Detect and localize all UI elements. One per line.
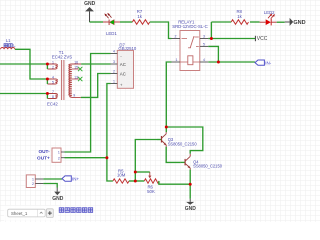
sheet tab bar [4,206,58,221]
LED D1 (LED1) [103,13,120,25]
winding 1-2 [47,64,57,69]
svg-text:3: 3 [203,35,205,39]
resistor R8 [231,9,248,24]
svg-text:LED1: LED1 [106,31,117,36]
transistor Q4 SS8050 [181,154,223,170]
svg-text:AC: AC [120,72,126,77]
node junction pin5/pin4/IN- [217,61,220,64]
bridge pin stubs [111,54,118,84]
wire pin3 to VCC [211,38,255,40]
relay pin numbers [175,35,205,63]
svg-text:LED2: LED2 [264,10,275,15]
svg-text:4: 4 [52,75,54,79]
wire Q3 base from junction column [135,140,157,173]
bridge pin numbers [113,50,115,84]
wire pin3 up to R8 row [210,22,212,39]
svg-text:5: 5 [203,43,205,47]
sheet title CJK text [59,208,92,213]
wire T1 pin16 to bridge pin3 [81,63,110,65]
LED D2 (LED2) [260,14,277,26]
wire IN pin1 to IN+ flag [43,178,62,180]
svg-text:15: 15 [74,66,78,70]
svg-text:1: 1 [113,80,115,84]
transistor Q3 SS8050 [157,132,197,147]
transformer T1 EC42 ZVS [47,50,81,106]
wire junction down to R5/R6 row [134,172,136,181]
svg-text:EC42 ZVS: EC42 ZVS [52,54,72,59]
svg-text:OUT+: OUT+ [37,156,50,161]
winding 7-8 [47,94,57,99]
net flag IN- [255,60,272,65]
wire junction to R6 wiper [135,171,150,173]
svg-text:EC42: EC42 [47,101,58,106]
svg-text:1: 1 [32,178,34,182]
connector OUT (2 pin) [52,148,65,162]
potentiometer R6 50K [144,172,159,194]
wire R8 to LED2 [250,21,260,23]
wire Q3 collector junction down [165,127,167,132]
svg-text:7: 7 [52,90,54,94]
tap stubs 15 and 13 [72,68,79,70]
wire GND1 to LED1 [90,21,104,23]
winding 4-5 [47,79,57,84]
no-connect X pin13 [78,77,82,81]
svg-text:3: 3 [113,60,115,64]
wire bridge pin1 (+) down to OUT pin2 and R5 [107,84,113,182]
svg-text:13: 13 [74,76,78,80]
node junction wiper column [134,171,137,174]
svg-text:1: 1 [58,151,60,155]
wire IN pin2 to GND3 [43,184,57,188]
svg-text:Sheet_1: Sheet_1 [11,211,28,216]
wire OUT pin2 to junction [65,157,107,159]
wire to R8 [211,21,231,23]
ground GND2 right (rotated) [285,18,306,26]
net flag IN+ [62,176,80,181]
svg-text:SRD-12VDC-SL-C: SRD-12VDC-SL-C [172,24,208,29]
svg-text:GND: GND [185,206,197,212]
label LED2 [264,10,275,15]
svg-text:8: 8 [52,95,54,99]
node junction pin3/R8/VCC [210,37,213,40]
svg-text:GND: GND [293,20,305,26]
svg-text:16: 16 [74,61,78,65]
bridge rectifier D7 GBJ2510 [117,43,137,89]
svg-text:OUT-: OUT- [38,149,50,154]
wire left edge to T1 winding1 [0,63,47,65]
svg-text:L1: L1 [6,38,11,43]
label LED1 [106,31,117,36]
svg-text:10M: 10M [117,172,126,177]
svg-text:IN+: IN+ [72,176,80,181]
svg-text:9: 9 [73,93,75,97]
wire relay pin4 to IN- [208,61,255,63]
svg-text:GND: GND [52,196,64,202]
svg-text:IN-: IN- [265,60,272,65]
VCC flag [255,36,267,42]
no-connect X pin15 [78,67,82,71]
wire T1 pin9 to bridge pin2 [81,74,111,98]
svg-text:50K: 50K [147,189,155,194]
wire relay pin1 down to Q3 collector [166,62,171,127]
inductor L1 [1,38,17,49]
relay RELAY1 SRD-12VDC-SL-C [172,20,208,71]
svg-text:2: 2 [175,35,177,39]
svg-text:4: 4 [113,50,115,54]
wire Q3 collector to Q4 collector [166,127,203,154]
wire R5 to R6 [129,180,144,182]
node junction Q3 collector [165,126,168,129]
svg-text:2: 2 [58,156,60,160]
svg-text:2: 2 [32,182,34,186]
svg-text:2: 2 [52,65,54,69]
wire Q3 emitter to Q4 base [166,147,180,163]
relay pin stubs [172,39,209,63]
wire R7 to relay pin2 [150,22,172,39]
wire Q4 emitter down [189,170,191,199]
node junction OUT+/bridge+ [105,156,108,159]
wire L1 to T1 winding2 [15,49,48,79]
wire relay pin5 jog to pin4 row [208,46,218,62]
svg-text:4: 4 [203,58,205,62]
wire LED2 to GND2 [277,21,285,23]
svg-text:SS8050_C2150: SS8050_C2150 [168,141,198,146]
wire left edge to T1 winding3 [0,93,47,95]
wire bridge pin4 (-) down to OUT pin1 [65,54,111,153]
svg-text:1: 1 [52,60,54,64]
secondary winding right [69,64,81,97]
svg-text:GND: GND [84,1,96,7]
svg-text:1: 1 [176,58,178,62]
label OUT+ [37,156,50,161]
svg-text:SS8050_C2150: SS8050_C2150 [193,164,223,169]
svg-text:5: 5 [52,80,54,84]
T1 pin numbers [52,60,78,99]
ground GND4 under Q4 [185,199,197,212]
wire relay pin3 junction [208,38,211,40]
svg-text:VCC: VCC [257,36,268,42]
ground GND3 bottom-left [52,188,64,203]
svg-text:2: 2 [113,70,115,74]
wire LED1 to R7 [120,21,132,23]
connector IN (2 pin) [26,175,43,188]
T1 parallel jumpers with junction dots [46,63,49,70]
node junction R5/R6 row [134,180,137,183]
svg-text:AC: AC [120,62,126,67]
label OUT- [38,149,50,154]
resistor R5 [113,168,129,183]
ground GND1 top-left [84,1,96,22]
resistor R7 [132,9,149,24]
wire R6 right jog to emitter column [159,181,190,184]
node junction Q4 emitter/GND [189,183,192,186]
